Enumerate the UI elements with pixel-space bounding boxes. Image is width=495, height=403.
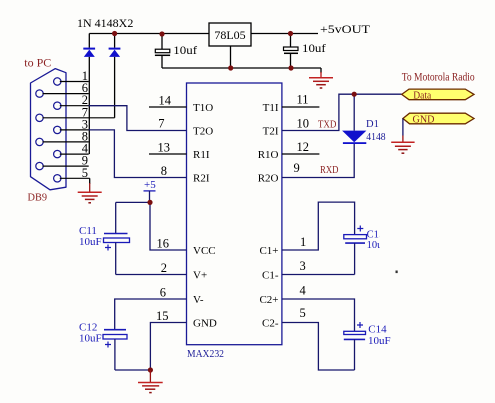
svg-text:12: 12: [297, 140, 310, 154]
svg-text:8: 8: [161, 164, 167, 178]
diode D-right 1N4148: [109, 34, 121, 118]
svg-text:4148: 4148: [366, 132, 385, 143]
ground power rail: [309, 68, 333, 88]
IC right pin numbers: [294, 92, 310, 320]
wire C13 bottom to C1- pin3: [282, 274, 355, 276]
wire C14 bottom to C2- pin5: [282, 323, 355, 371]
svg-text:78L05: 78L05: [214, 28, 245, 42]
svg-text:R1O: R1O: [258, 149, 279, 161]
svg-text:9: 9: [294, 161, 300, 175]
svg-text:T2O: T2O: [193, 125, 213, 137]
svg-text:C2-: C2-: [262, 317, 279, 329]
DB9 pin circles left column 6-9: [36, 90, 43, 170]
svg-text:V+: V+: [193, 269, 207, 281]
svg-text:VCC: VCC: [193, 245, 216, 257]
svg-text:R2I: R2I: [193, 172, 210, 184]
svg-text:2: 2: [161, 261, 167, 275]
wire V- pin6 to C12: [115, 299, 187, 330]
svg-text:10uF: 10uF: [79, 333, 102, 345]
flag Data: [402, 89, 474, 101]
wire RXD pin9 to D1: [282, 144, 354, 178]
wire C11 to V+ pin2: [116, 274, 187, 276]
svg-text:15: 15: [156, 309, 169, 323]
svg-text:7: 7: [158, 116, 164, 130]
svg-text:6: 6: [160, 286, 166, 300]
junction dot D1/Data: [352, 92, 357, 97]
svg-text:R1I: R1I: [193, 149, 210, 161]
ground C12: [138, 370, 163, 393]
wire top power rail: [89, 33, 318, 35]
svg-text:11: 11: [297, 92, 309, 106]
capacitor 10uf right: [284, 34, 326, 69]
DB9 pin circles right column 1-5: [54, 78, 61, 182]
wire DB9 pin3 to R2I pin8: [89, 130, 187, 178]
svg-text:10: 10: [297, 116, 310, 130]
capacitor C14 10uF: [344, 322, 391, 370]
svg-text:C2+: C2+: [259, 294, 278, 306]
svg-text:DB9: DB9: [28, 192, 48, 204]
wire TXD pin10 to Data: [282, 94, 402, 130]
stray mark: [396, 271, 398, 274]
svg-text:R2O: R2O: [258, 172, 279, 184]
svg-text:+5vOUT: +5vOUT: [320, 22, 371, 36]
svg-text:TXD: TXD: [318, 119, 337, 130]
capacitor C11 10uF: [79, 202, 130, 274]
svg-text:T1O: T1O: [193, 102, 213, 114]
svg-text:RXD: RXD: [320, 165, 339, 176]
svg-text:10uF: 10uF: [368, 335, 391, 347]
wire bottom power rail: [162, 67, 321, 69]
svg-text:5: 5: [82, 166, 88, 180]
IC U1 MAX232 body: [187, 83, 282, 360]
svg-text:16: 16: [157, 237, 170, 251]
wire DB9 pin2 to T2O pin7: [89, 106, 187, 131]
svg-text:MAX232: MAX232: [187, 348, 224, 360]
svg-text:4: 4: [300, 284, 307, 298]
diode D1 4148: [342, 94, 385, 144]
wire C1+ pin1 to C13 top: [282, 202, 355, 250]
wire +5 net to VCC pin16: [116, 202, 187, 250]
svg-text:Data: Data: [413, 90, 431, 101]
svg-text:to PC: to PC: [24, 55, 51, 69]
wire C12 bottom to GND pin15: [115, 323, 187, 371]
svg-text:13: 13: [158, 140, 171, 154]
IC left pin labels: [193, 102, 217, 329]
wire 78L05 ground pin: [230, 46, 232, 68]
pin 13 stub: [149, 153, 187, 155]
pin 11 stub: [282, 106, 320, 108]
junction dots top rail: [112, 31, 294, 71]
wire C2+ pin4 to C14 top: [282, 299, 355, 331]
svg-text:10uF: 10uF: [79, 236, 102, 248]
DB9 pin wires: [43, 82, 115, 179]
svg-text:C14: C14: [368, 324, 387, 336]
svg-text:3: 3: [300, 259, 306, 273]
pin 14 stub: [149, 106, 187, 108]
svg-text:D1: D1: [366, 119, 379, 130]
capacitor C13 10uF: [344, 222, 395, 275]
ground GND flag: [391, 119, 414, 154]
diode D-left 1N4148: [83, 34, 95, 155]
IC left pin numbers: [156, 94, 172, 323]
svg-text:1N 4148X2: 1N 4148X2: [77, 16, 133, 30]
svg-text:C1+: C1+: [259, 245, 278, 257]
DB9 pin numbers: [82, 69, 89, 180]
svg-text:10uf: 10uf: [302, 41, 326, 55]
svg-text:+5: +5: [144, 179, 156, 191]
svg-text:C1-: C1-: [262, 269, 279, 281]
svg-text:5: 5: [300, 306, 306, 320]
svg-text:1: 1: [300, 235, 306, 249]
capacitor 10uf left: [155, 34, 197, 69]
flag GND: [403, 113, 474, 125]
svg-text:10uf: 10uf: [173, 43, 197, 57]
svg-text:14: 14: [159, 94, 172, 108]
power +5 symbol: [144, 179, 157, 202]
capacitor C12 10uF: [79, 322, 127, 371]
ground DB9 pin5: [78, 178, 102, 203]
svg-text:GND: GND: [413, 114, 435, 125]
svg-text:V-: V-: [193, 294, 204, 306]
junction dot C12 ground: [148, 367, 153, 372]
svg-text:T2I: T2I: [263, 125, 279, 137]
junction dot +5: [147, 200, 152, 205]
pin 12 stub: [282, 153, 320, 155]
svg-text:To Motorola Radio: To Motorola Radio: [402, 72, 475, 84]
IC right pin labels: [258, 102, 279, 329]
svg-text:GND: GND: [193, 317, 217, 329]
connector DB9 shell: [24, 55, 66, 203]
regulator U? 78L05: [209, 23, 251, 68]
svg-text:T1I: T1I: [263, 102, 279, 114]
